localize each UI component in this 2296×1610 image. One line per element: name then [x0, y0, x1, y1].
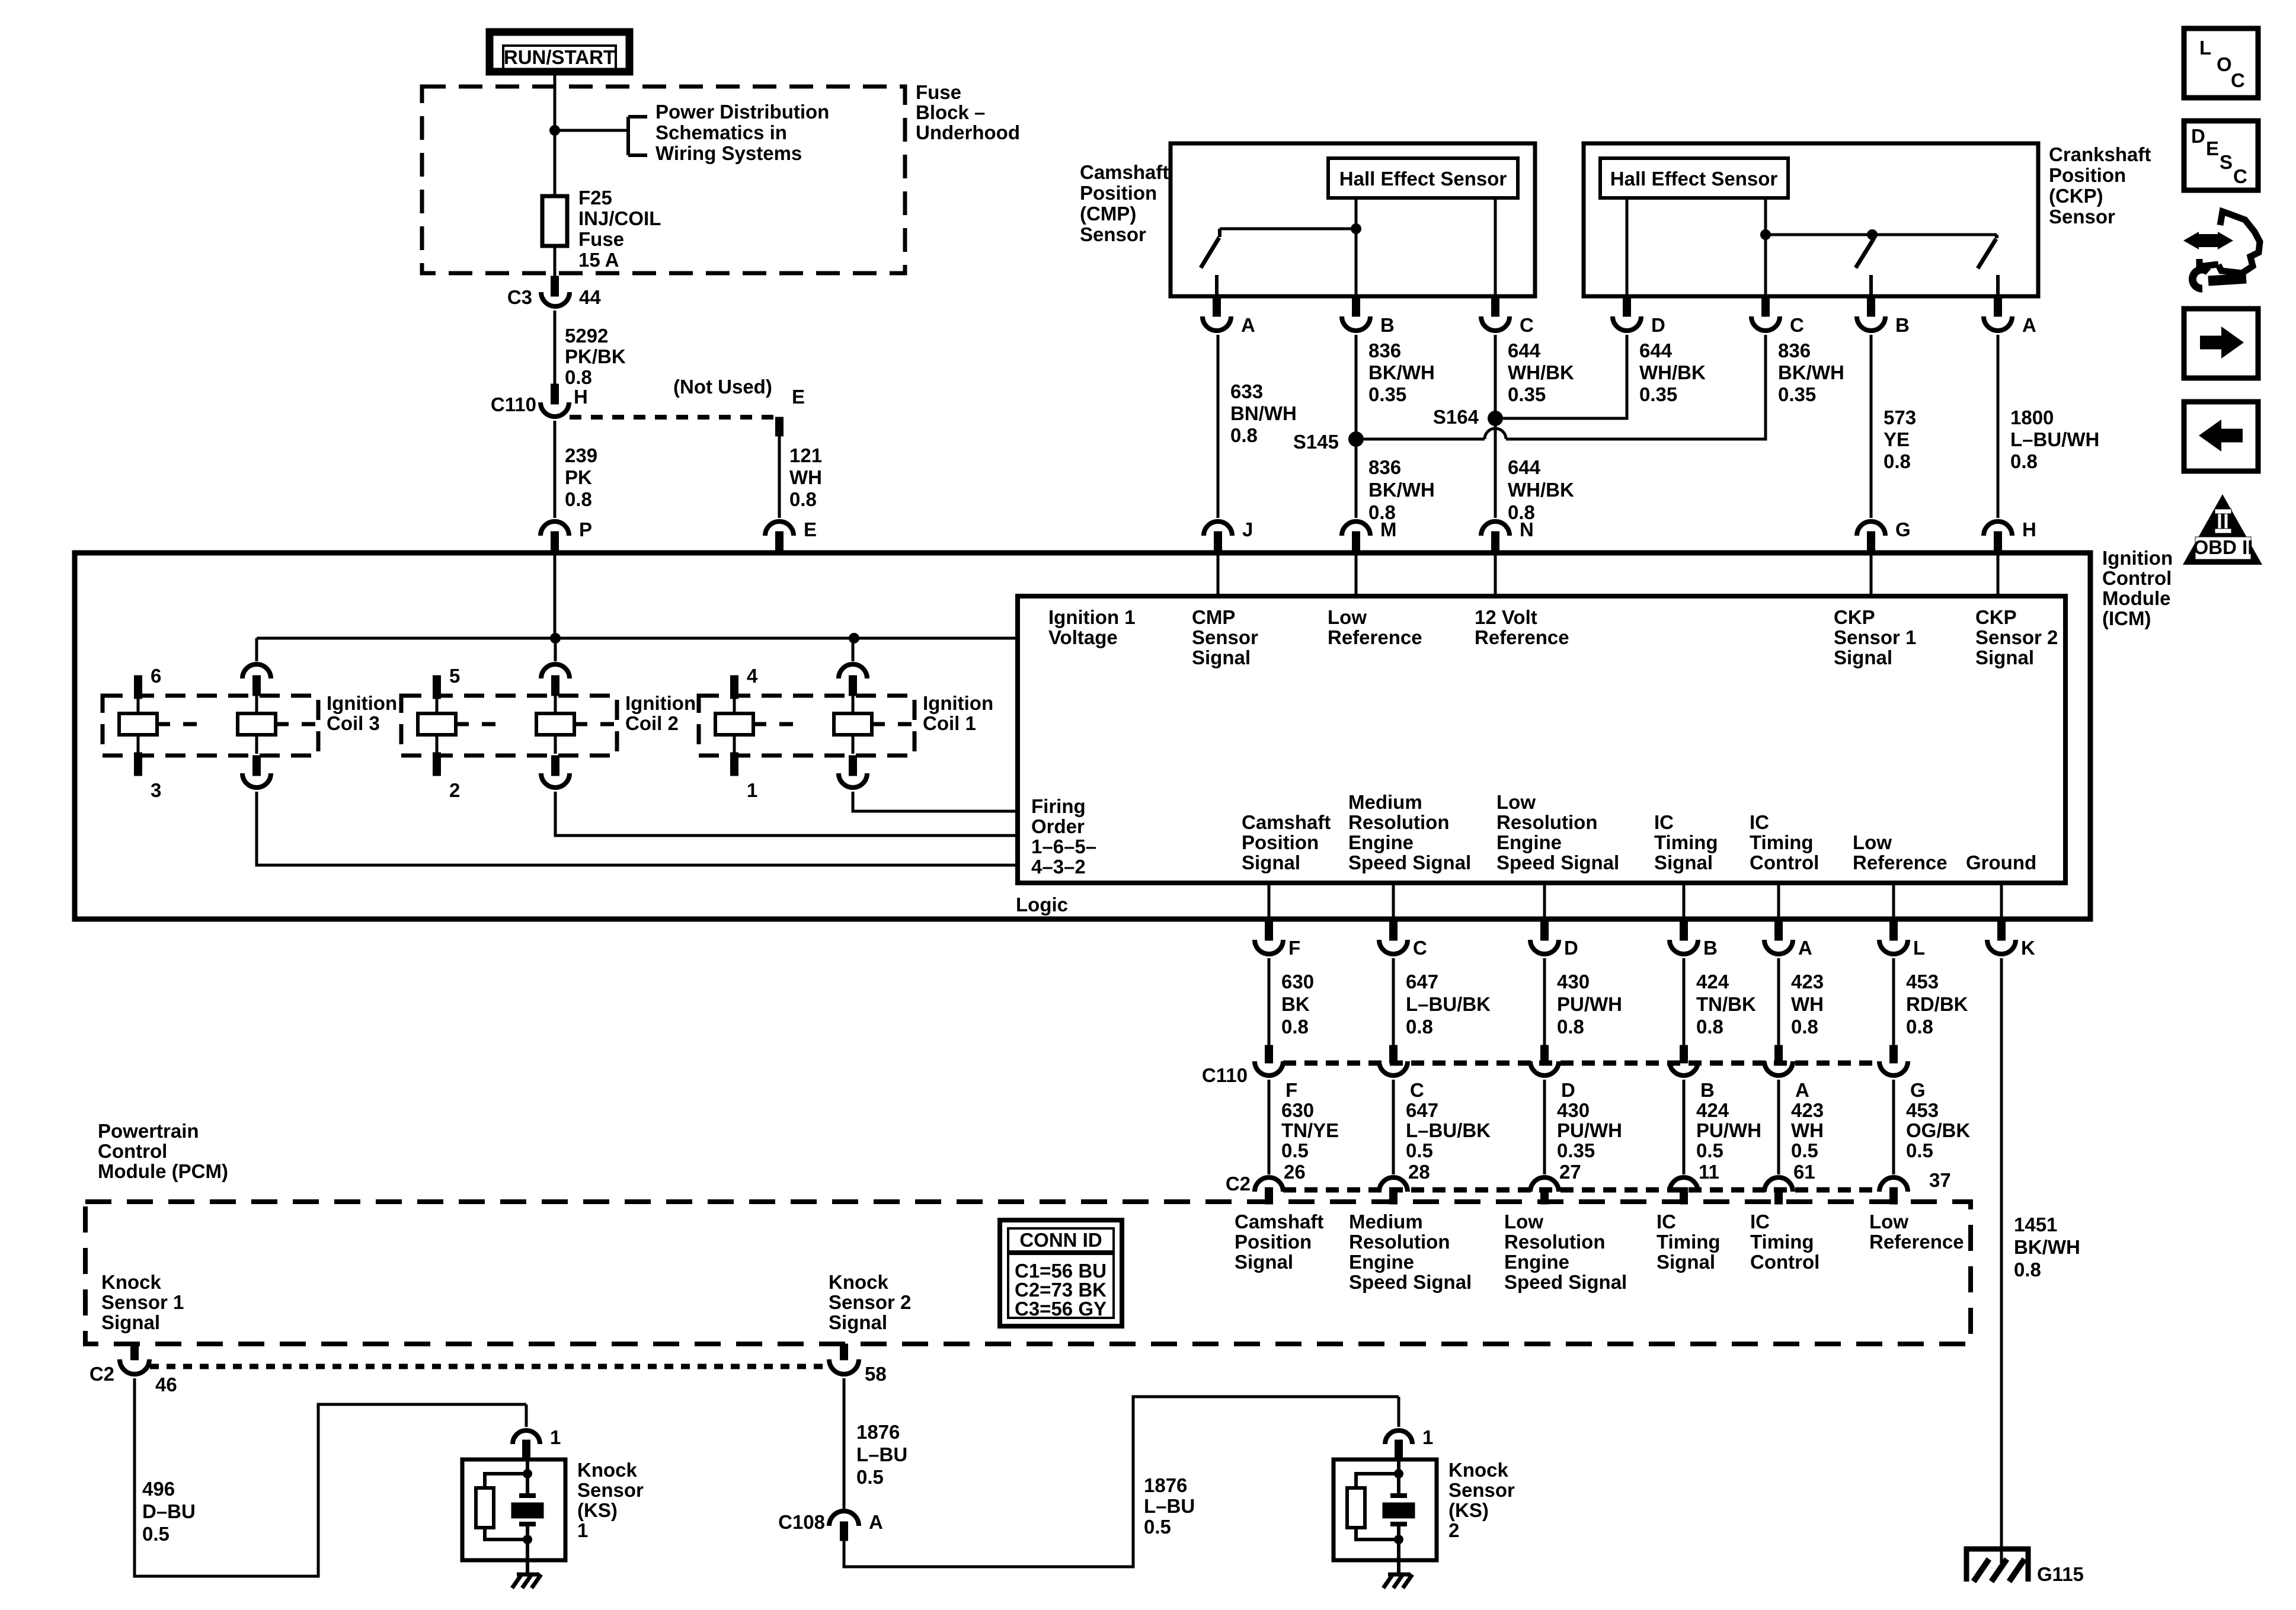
dashed connector line C2 row [1283, 1188, 1879, 1193]
ignition coil 1 dashed box [699, 696, 914, 756]
svg-text:Sensor: Sensor [1448, 1479, 1515, 1501]
svg-text:Low: Low [1853, 831, 1892, 853]
svg-text:Reference: Reference [1475, 626, 1569, 648]
ignition coil 3 primary lead dashes [157, 722, 197, 726]
svg-text:PU/WH: PU/WH [1557, 993, 1622, 1015]
svg-text:L–BU/BK: L–BU/BK [1406, 1119, 1491, 1141]
icon vehicle data link [2183, 212, 2260, 289]
svg-text:Signal: Signal [1235, 1251, 1293, 1273]
connector ICM pin F [1255, 919, 1283, 954]
svg-text:121: 121 [789, 444, 822, 466]
svg-text:YE: YE [1884, 428, 1910, 450]
svg-text:Hall Effect Sensor: Hall Effect Sensor [1339, 168, 1507, 190]
svg-text:1800: 1800 [2010, 406, 2054, 428]
knock sensor 1 box [462, 1459, 565, 1560]
label Low Reference logic top [1328, 606, 1422, 648]
svg-text:0.8: 0.8 [1884, 450, 1911, 472]
svg-text:Speed Signal: Speed Signal [1504, 1271, 1627, 1293]
wire ICM J to logic [1217, 553, 1220, 596]
svg-text:1–6–5–: 1–6–5– [1031, 836, 1096, 857]
svg-text:424: 424 [1696, 1099, 1729, 1121]
dashed wire C110 H to E [570, 415, 779, 420]
label 647 L–BU/BK 0.5 [1406, 1099, 1491, 1161]
svg-text:G115: G115 [2037, 1563, 2084, 1585]
svg-text:Resolution: Resolution [1496, 811, 1598, 833]
label Powertrain Control Module (PCM) [98, 1120, 228, 1182]
junction dot bus coil2 [550, 633, 561, 644]
label IC Timing Control logic [1750, 811, 1819, 873]
svg-text:Signal: Signal [1654, 852, 1713, 873]
wire C110 D to C2 [1543, 1080, 1546, 1174]
svg-text:D: D [1564, 937, 1578, 959]
svg-text:C: C [1413, 937, 1427, 959]
svg-text:Medium: Medium [1349, 1211, 1423, 1233]
icon LOC box [2184, 28, 2258, 98]
svg-text:PU/WH: PU/WH [1696, 1119, 1761, 1141]
label 121 WH 0.8 [789, 444, 822, 510]
svg-text:5292: 5292 [565, 325, 608, 347]
svg-text:836: 836 [1368, 456, 1401, 478]
svg-text:0.5: 0.5 [1406, 1140, 1433, 1161]
svg-text:239: 239 [565, 444, 597, 466]
svg-text:H: H [2022, 518, 2036, 540]
wire ICM H to logic [1997, 553, 2000, 596]
svg-text:Engine: Engine [1348, 831, 1414, 853]
svg-text:647: 647 [1406, 1099, 1438, 1121]
label 644 WH/BK 0.8 [1508, 456, 1574, 523]
svg-text:(Not Used): (Not Used) [673, 376, 772, 398]
svg-text:Firing: Firing [1031, 795, 1086, 817]
svg-text:PK: PK [565, 466, 592, 488]
label 5292 PK/BK 0.8 [565, 325, 626, 388]
svg-text:F25: F25 [578, 187, 612, 209]
svg-text:0.8: 0.8 [789, 488, 817, 510]
svg-text:K: K [2021, 937, 2035, 959]
svg-text:PK/BK: PK/BK [565, 345, 626, 367]
svg-text:Signal: Signal [1657, 1251, 1715, 1273]
svg-text:Speed Signal: Speed Signal [1349, 1271, 1472, 1293]
connector ICM pin K [1987, 919, 2016, 954]
ground knock sensor 1 [512, 1574, 541, 1588]
svg-text:Reference: Reference [1869, 1231, 1964, 1253]
icon forward arrow box [2184, 309, 2258, 378]
svg-text:S145: S145 [1293, 431, 1339, 453]
svg-text:TN/BK: TN/BK [1696, 993, 1756, 1015]
connector C108 pin A [829, 1511, 859, 1541]
svg-text:Ignition: Ignition [2102, 547, 2173, 569]
svg-text:Module: Module [2102, 587, 2170, 609]
svg-text:C108: C108 [778, 1511, 825, 1533]
svg-text:Low: Low [1869, 1211, 1908, 1233]
wire hall CKP pin D internal [1626, 198, 1629, 296]
svg-text:N: N [1520, 518, 1534, 540]
svg-text:Signal: Signal [101, 1311, 160, 1333]
svg-text:Knock: Knock [577, 1459, 638, 1481]
svg-text:Sensor 1: Sensor 1 [1834, 626, 1916, 648]
svg-text:1451: 1451 [2014, 1214, 2057, 1235]
label 1876 L-BU 0.5 lower [1144, 1474, 1195, 1538]
connector coil 1 secondary top [839, 664, 867, 696]
ignition coil 2 primary lead dashes [456, 722, 495, 726]
svg-text:C3: C3 [507, 286, 532, 308]
svg-text:OG/BK: OG/BK [1906, 1119, 1970, 1141]
label Camshaft Position Signal PCM [1235, 1211, 1323, 1273]
wire 423 WH [1777, 958, 1780, 1045]
connector ICM pin H [1984, 521, 2012, 553]
label Medium Resolution Engine Speed Signal logic [1348, 791, 1471, 873]
svg-text:430: 430 [1557, 1099, 1590, 1121]
label 12 Volt Reference [1475, 606, 1569, 648]
svg-text:Signal: Signal [1192, 646, 1251, 668]
svg-text:Timing: Timing [1750, 831, 1814, 853]
svg-text:Crankshaft: Crankshaft [2049, 143, 2151, 165]
svg-text:Signal: Signal [1975, 646, 2034, 668]
wire 424 TN/BK [1683, 958, 1686, 1045]
wire coil 3 secondary top to bus [255, 638, 258, 661]
wire C110 G to C2 [1892, 1080, 1895, 1174]
svg-text:J: J [1242, 518, 1253, 540]
svg-text:E: E [804, 518, 817, 540]
wire C110 F to C2 [1268, 1080, 1271, 1174]
connector coil 3 secondary bottom [242, 756, 271, 788]
svg-text:Control: Control [1750, 852, 1819, 873]
svg-text:0.35: 0.35 [1639, 383, 1677, 405]
label 633 BN/WH 0.8 [1230, 380, 1297, 446]
label Firing Order 1-6-5-4-3-2 [1031, 795, 1096, 878]
svg-text:PU/WH: PU/WH [1557, 1119, 1622, 1141]
svg-text:Signal: Signal [829, 1311, 887, 1333]
svg-text:26: 26 [1284, 1161, 1306, 1183]
svg-text:0.35: 0.35 [1508, 383, 1546, 405]
svg-text:1876: 1876 [856, 1421, 900, 1443]
svg-text:H: H [574, 386, 588, 408]
svg-text:6: 6 [151, 665, 161, 687]
dashed connector line C110 row [1283, 1061, 1879, 1066]
wire knock sensor 2 pin drop [1398, 1397, 1400, 1427]
junction dot CMP internal [1351, 223, 1361, 234]
wire coil 2 bottom to logic firing [555, 792, 1018, 836]
svg-text:496: 496 [142, 1478, 175, 1500]
label Medium Resolution Engine Speed Signal PCM [1349, 1211, 1472, 1293]
svg-text:1: 1 [747, 779, 757, 801]
label 573 YE 0.8 [1884, 406, 1916, 472]
svg-text:Knock: Knock [1448, 1459, 1509, 1481]
wire CKP switch bus [1766, 233, 1997, 236]
wire 633 BN/WH CMP A to ICM J [1217, 335, 1220, 518]
svg-text:Wiring Systems: Wiring Systems [655, 142, 802, 164]
svg-text:4: 4 [747, 665, 758, 687]
svg-text:IC: IC [1750, 811, 1769, 833]
wire ICM G to logic [1870, 553, 1873, 596]
connector coil 2 secondary bottom [541, 756, 570, 788]
connector knock sensor 1 pin 1 [513, 1430, 540, 1459]
svg-text:0.5: 0.5 [1144, 1516, 1171, 1538]
svg-text:A: A [869, 1511, 883, 1533]
wire coil 3 bottom to logic firing [257, 792, 1018, 865]
label 453 RD/BK 0.8 [1906, 971, 1968, 1038]
connector knock sensor 2 pin 1 [1385, 1430, 1412, 1459]
ignition coil 3 dashed box [103, 696, 318, 756]
connector ICM pin G [1857, 521, 1885, 553]
ignition coil 1 secondary lead dashes [872, 722, 912, 726]
svg-text:Sensor 1: Sensor 1 [101, 1291, 184, 1313]
svg-text:46: 46 [155, 1374, 177, 1395]
svg-text:0.5: 0.5 [856, 1466, 884, 1488]
svg-text:Camshaft: Camshaft [1242, 811, 1331, 833]
svg-text:Ignition: Ignition [625, 692, 696, 714]
icon DESC box [2184, 121, 2258, 190]
knock sensor 1 internal wiring [485, 1459, 532, 1544]
wire 121 WH [778, 436, 781, 518]
svg-text:Sensor 2: Sensor 2 [829, 1291, 911, 1313]
svg-text:430: 430 [1557, 971, 1590, 993]
svg-text:Logic: Logic [1016, 894, 1068, 916]
ignition coil 2 secondary winding [536, 713, 574, 735]
svg-text:Position: Position [1242, 831, 1319, 853]
connector ICM pin A [1764, 919, 1793, 954]
svg-text:BK/WH: BK/WH [1778, 361, 1844, 383]
svg-text:G: G [1910, 1079, 1926, 1101]
label 644 WH/BK 0.35 CMP C [1508, 340, 1574, 405]
connector CKP pin A [1984, 296, 2012, 331]
svg-text:Position: Position [1235, 1231, 1312, 1253]
label 1800 L-BU/WH 0.8 [2010, 406, 2099, 472]
wire 644 WH/BK 0.35 CMP C [1494, 335, 1497, 421]
connector C2 pin 28 [1379, 1177, 1408, 1204]
svg-text:WH: WH [1791, 993, 1824, 1015]
label Camshaft Position Signal logic [1242, 811, 1331, 873]
junction dot power branch [549, 125, 560, 136]
wire 644 WH/BK 0.8 S164 to N [1494, 418, 1497, 518]
switch CKP sensor2 [1978, 235, 1998, 296]
svg-text:B: B [1895, 314, 1910, 336]
svg-text:644: 644 [1508, 340, 1541, 361]
wire C110 C to C2 [1392, 1080, 1395, 1174]
svg-text:G: G [1895, 518, 1911, 540]
label Low Reference PCM [1869, 1211, 1964, 1253]
svg-text:F: F [1288, 937, 1300, 959]
svg-text:BK/WH: BK/WH [1368, 361, 1435, 383]
label IC Timing Signal logic [1654, 811, 1718, 873]
svg-text:Resolution: Resolution [1504, 1231, 1606, 1253]
knock sensor 1 resistor [476, 1488, 494, 1528]
connector ICM pin L [1879, 919, 1908, 954]
stub C110 pin E [776, 417, 784, 436]
logic box [1018, 596, 2065, 883]
svg-text:C3=56 GY: C3=56 GY [1015, 1298, 1107, 1320]
svg-text:0.5: 0.5 [1791, 1140, 1818, 1161]
svg-text:P: P [579, 518, 592, 540]
svg-text:IC: IC [1750, 1211, 1770, 1233]
splice S145 [1348, 431, 1364, 447]
connector ICM pin N [1481, 521, 1510, 553]
svg-text:424: 424 [1696, 971, 1729, 993]
ground G115 [1964, 1547, 2030, 1582]
svg-text:0.5: 0.5 [1906, 1140, 1933, 1161]
wire 836 BK/WH 0.35 CMP B [1355, 335, 1358, 439]
fuse F25 symbol [542, 196, 567, 246]
svg-text:CKP: CKP [1834, 606, 1875, 628]
svg-text:C110: C110 [1202, 1064, 1248, 1086]
label Low Resolution Engine Speed Signal logic [1496, 791, 1619, 873]
svg-text:Order: Order [1031, 815, 1085, 837]
ICM Ignition Control Module box [75, 553, 2090, 919]
svg-text:0.8: 0.8 [565, 488, 592, 510]
svg-text:Reference: Reference [1328, 626, 1422, 648]
connector C110 pin G [1879, 1045, 1908, 1076]
label Power Distribution Schematics in Wiring Systems [655, 101, 829, 164]
svg-text:Ground: Ground [1966, 852, 2036, 873]
svg-text:0.8: 0.8 [1230, 424, 1258, 446]
svg-text:BK/WH: BK/WH [1368, 479, 1435, 501]
svg-text:58: 58 [865, 1363, 887, 1385]
svg-text:Timing: Timing [1654, 831, 1718, 853]
connector CMP pin C [1481, 296, 1510, 331]
ground knock sensor 2 [1383, 1574, 1412, 1588]
svg-text:WH: WH [1791, 1119, 1824, 1141]
svg-text:E: E [2206, 137, 2219, 159]
ignition coil 1 primary lead dashes [753, 722, 793, 726]
connector ICM pin J [1204, 521, 1232, 553]
connector ICM pin D [1530, 919, 1559, 954]
svg-text:(KS): (KS) [577, 1499, 618, 1521]
wire 644 WH/BK 0.35 CKP D to S164 [1503, 335, 1627, 418]
connector C110 pin F [1255, 1045, 1283, 1076]
svg-text:C: C [2233, 165, 2247, 187]
svg-text:0.8: 0.8 [2010, 450, 2038, 472]
svg-text:Position: Position [1080, 182, 1157, 204]
svg-text:0.35: 0.35 [1557, 1140, 1595, 1161]
svg-text:BK/WH: BK/WH [2014, 1236, 2080, 1258]
svg-text:Control: Control [2102, 567, 2172, 589]
svg-text:C: C [1520, 314, 1534, 336]
svg-text:1: 1 [577, 1519, 588, 1541]
svg-text:Coil 3: Coil 3 [327, 712, 380, 734]
wire ICM N to logic [1494, 553, 1497, 596]
ignition coil 1 secondary winding [834, 713, 872, 735]
connector C110 pin B [1670, 1045, 1698, 1076]
svg-text:647: 647 [1406, 971, 1438, 993]
svg-text:Sensor: Sensor [1192, 626, 1258, 648]
svg-text:Signal: Signal [1834, 646, 1892, 668]
switch CKP sensor1 [1856, 238, 1874, 296]
bracket power distribution reference [628, 117, 647, 155]
svg-text:0.5: 0.5 [142, 1523, 170, 1545]
ignition coil 2 primary winding [418, 713, 456, 735]
wire 1876 L-BU lower [844, 1397, 1399, 1567]
wire knock sensor 2 to ground [1397, 1539, 1400, 1574]
knock sensor 2 box [1334, 1459, 1437, 1560]
svg-text:Engine: Engine [1504, 1251, 1569, 1273]
svg-text:836: 836 [1368, 340, 1401, 361]
wire coil 1 bottom to logic firing [853, 792, 1018, 811]
connector ICM pin B [1670, 919, 1698, 954]
svg-text:Engine: Engine [1349, 1251, 1414, 1273]
label Ignition Coil 3 [327, 692, 397, 734]
wire 630 BK [1268, 958, 1271, 1045]
svg-text:S164: S164 [1433, 406, 1479, 428]
label 836 BK/WH 0.35 CMP B [1368, 340, 1435, 405]
wire 5292 PK/BK [554, 311, 557, 385]
connector C2 pin 61 [1764, 1177, 1793, 1204]
svg-text:CMP: CMP [1192, 606, 1235, 628]
wire 836 BK/WH 0.8 S145 to M [1355, 439, 1358, 518]
wire 430 PU/WH [1543, 958, 1546, 1045]
svg-text:Schematics in: Schematics in [655, 121, 787, 143]
svg-text:Resolution: Resolution [1348, 811, 1450, 833]
svg-text:0.8: 0.8 [1791, 1016, 1818, 1038]
svg-text:A: A [1798, 937, 1812, 959]
label Ignition Coil 1 [923, 692, 993, 734]
label 836 BK/WH 0.8 [1368, 456, 1435, 523]
wire CMP switch feed [1220, 228, 1356, 231]
svg-text:27: 27 [1559, 1161, 1581, 1183]
wire 1800 L-BU/WH CKP A to ICM H [1997, 335, 2000, 518]
svg-text:423: 423 [1791, 1099, 1824, 1121]
svg-text:A: A [1795, 1079, 1809, 1101]
label IC Timing Signal PCM [1657, 1211, 1721, 1273]
ignition coil 2 primary pin 5 [433, 676, 441, 699]
label 423 WH 0.5 [1791, 1099, 1824, 1161]
svg-text:0.8: 0.8 [1406, 1016, 1433, 1038]
connector CKP pin D [1613, 296, 1641, 331]
svg-text:E: E [792, 386, 805, 408]
knock sensor 1 piezo element [511, 1496, 543, 1524]
label Low Reference logic bottom [1853, 831, 1948, 873]
svg-text:WH/BK: WH/BK [1508, 361, 1574, 383]
svg-text:D: D [1651, 314, 1665, 336]
svg-text:1876: 1876 [1144, 1474, 1187, 1496]
svg-text:Ignition: Ignition [327, 692, 397, 714]
svg-text:C: C [2231, 69, 2245, 91]
ignition coil 2 primary pin 2 [433, 753, 441, 776]
svg-text:L: L [1913, 937, 1925, 959]
connector C2 pin 27 [1530, 1177, 1559, 1204]
svg-text:Engine: Engine [1496, 831, 1562, 853]
wire ignition 1 voltage bus [257, 637, 1018, 640]
svg-text:Low: Low [1504, 1211, 1543, 1233]
fuse block dashed box [422, 87, 905, 273]
CMP sensor box [1171, 143, 1535, 296]
svg-text:61: 61 [1793, 1161, 1815, 1183]
svg-text:O: O [2217, 53, 2232, 75]
label CKP Sensor 1 Signal [1834, 606, 1916, 668]
wire 453 RD/BK [1892, 958, 1895, 1045]
label 630 BK 0.8 [1281, 971, 1314, 1038]
svg-text:Powertrain: Powertrain [98, 1120, 199, 1142]
svg-text:Timing: Timing [1657, 1231, 1721, 1253]
svg-text:(KS): (KS) [1448, 1499, 1489, 1521]
ignition coil 3 secondary lead dashes [276, 722, 315, 726]
connector C110 pin D [1530, 1045, 1559, 1076]
connector C2 pin 58 [829, 1344, 859, 1374]
connector CMP pin A [1203, 296, 1231, 331]
splice S164 [1488, 411, 1503, 426]
svg-text:37: 37 [1929, 1169, 1951, 1191]
CKP sensor box [1584, 143, 2038, 296]
svg-text:644: 644 [1639, 340, 1673, 361]
wire RUN/START to fuse F25 [554, 71, 557, 196]
wire logic outputs to ICM bottom [1269, 883, 2001, 919]
svg-text:Voltage: Voltage [1048, 626, 1118, 648]
label CMP Sensor Signal [1192, 606, 1258, 668]
svg-text:B: B [1380, 314, 1395, 336]
svg-text:INJ/COIL: INJ/COIL [578, 207, 661, 229]
svg-text:BK: BK [1281, 993, 1310, 1015]
label 644 WH/BK 0.35 CKP D [1639, 340, 1706, 405]
svg-text:0.35: 0.35 [1778, 383, 1816, 405]
label Fuse Block - Underhood [916, 81, 1020, 143]
